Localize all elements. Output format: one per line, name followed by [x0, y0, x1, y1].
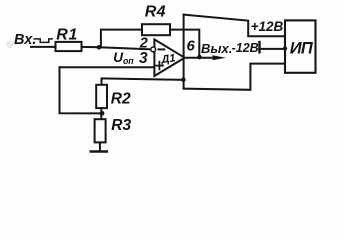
wire R4 to output node	[170, 30, 199, 57]
wire bottom common rail to IP box	[184, 64, 285, 90]
faint scan smudge	[7, 41, 14, 49]
junction feedback tap	[181, 78, 186, 83]
wire R1 to node A	[82, 46, 100, 48]
junction output node	[197, 55, 202, 60]
svg-text:-12В: -12В	[232, 41, 259, 55]
svg-text:R4: R4	[145, 4, 166, 21]
resistor R3	[95, 119, 106, 142]
wire pin3 branch down	[60, 67, 103, 113]
svg-text:R2: R2	[111, 91, 131, 108]
junction -12V at IP	[283, 46, 287, 50]
svg-text:6: 6	[187, 38, 196, 55]
wire +12V rail from op-amp top	[184, 15, 285, 37]
wire input to R1	[31, 46, 56, 48]
wire R3 to ground	[99, 142, 101, 150]
svg-text:3: 3	[139, 50, 148, 67]
wire node A up to R4	[101, 30, 142, 47]
svg-text:Д1: Д1	[160, 52, 176, 66]
svg-text:R1: R1	[56, 27, 78, 44]
junction R2 R3	[100, 111, 105, 116]
resistor R1	[56, 42, 82, 51]
minus sign	[159, 48, 165, 50]
wire R2 top to feedback tap	[102, 78, 184, 84]
input pulse waveform symbol	[34, 39, 52, 43]
svg-text:Вых.: Вых.	[201, 41, 232, 56]
resistor R4	[142, 24, 170, 35]
svg-text:Вх.: Вх.	[14, 32, 36, 48]
svg-text:Uоп: Uоп	[113, 50, 134, 66]
wire -12V to IP box	[259, 48, 285, 50]
arrowhead output	[213, 55, 227, 60]
svg-text:ИП: ИП	[290, 39, 314, 57]
svg-text:+12В: +12В	[251, 19, 284, 34]
minus 12V terminal tick	[258, 42, 260, 52]
output wire with arrow	[185, 57, 216, 59]
wire R2 to R3	[100, 108, 102, 119]
inverting input bubble pin 2	[151, 47, 156, 52]
junction node A	[97, 45, 102, 50]
plus sign	[156, 62, 163, 70]
wire op-amp pin 3	[60, 66, 154, 68]
power supply box IP	[285, 20, 316, 72]
wire node A to op-amp pin 2	[99, 47, 151, 49]
wire op-amp vertical power/output drop	[183, 15, 185, 89]
ground	[91, 150, 107, 153]
resistor R2	[96, 85, 107, 108]
svg-text:R3: R3	[111, 117, 131, 134]
op-amp U1 triangle	[154, 39, 184, 76]
